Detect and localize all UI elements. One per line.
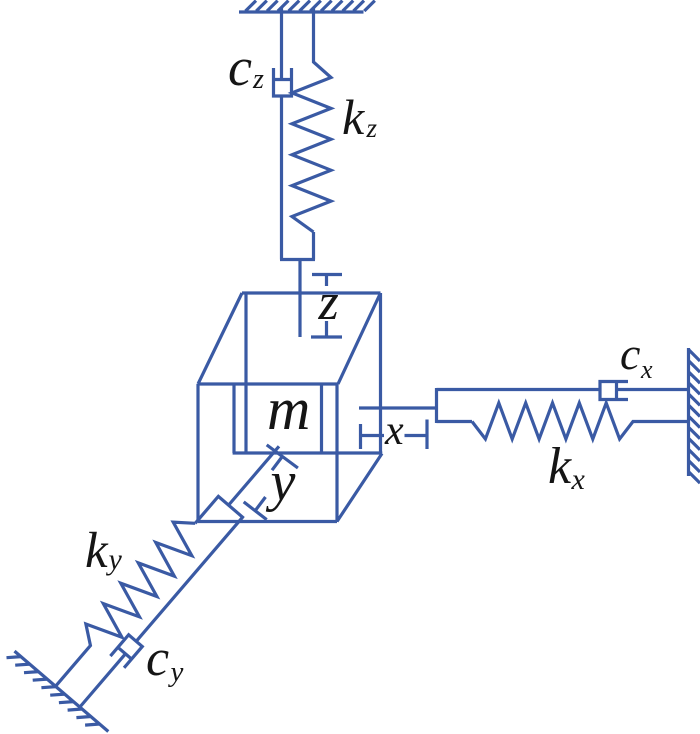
svg-text:z: z	[252, 64, 264, 95]
svg-text:c: c	[146, 630, 169, 687]
svg-text:k: k	[548, 438, 572, 495]
svg-text:y: y	[168, 656, 184, 688]
svg-text:c: c	[620, 328, 640, 379]
svg-text:z: z	[366, 113, 378, 143]
svg-text:y: y	[106, 543, 123, 576]
svg-text:z: z	[318, 274, 339, 331]
svg-text:m: m	[267, 376, 310, 442]
svg-text:c: c	[228, 37, 252, 97]
svg-text:x: x	[571, 463, 586, 496]
svg-text:k: k	[342, 89, 365, 145]
svg-text:y: y	[266, 451, 296, 513]
svg-text:x: x	[640, 355, 653, 384]
svg-text:x: x	[384, 408, 404, 454]
svg-text:k: k	[85, 523, 109, 579]
